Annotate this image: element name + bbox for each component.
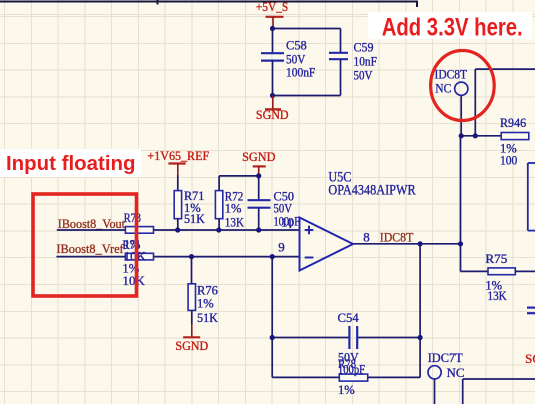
wire C54 left lead [272,337,349,339]
svg-text:OPA4348AIPWR: OPA4348AIPWR [328,182,415,198]
wire R72 top pin [218,176,220,191]
svg-text:C54: C54 [338,311,360,325]
net label IBoost8_Vout [58,216,126,231]
annotation red rectangle [33,194,137,296]
svg-text:SGND: SGND [525,351,535,366]
capacitor C50 [248,200,271,208]
wire feedback left vertical [271,257,273,378]
capacitor C50 labels [274,190,301,229]
power +5V_S label [256,0,288,14]
svg-text:10K: 10K [123,274,145,288]
resistor R76 labels [197,284,218,325]
junction feedback node [270,254,275,259]
svg-text:1%: 1% [338,383,355,397]
junction feedback top node [418,241,423,246]
power +1V65_REF label [147,148,209,163]
no-connect NC label bottom [447,365,465,380]
svg-text:R73: R73 [124,211,141,225]
wire upper-right net vertical [474,69,476,136]
svg-text:1%: 1% [225,202,242,216]
junction at +5V rail [270,26,275,31]
wire C58 bottom lead [272,61,274,96]
op-amp plus sign [305,226,314,235]
wire C50 bottom lead [258,208,260,230]
wire bottom rail [273,95,341,97]
wire SGND node to R72 [219,175,259,177]
svg-text:R946: R946 [500,116,526,130]
svg-text:SGND: SGND [242,149,275,164]
resistor R946 labels [500,116,526,168]
wire R75 left lead [461,270,489,272]
wire R75 right lead [515,270,535,272]
op-amp U5C triangle [300,218,354,271]
ground SGND bar bottom [183,336,200,338]
resistor R71 labels [184,189,205,226]
capacitor C59 [329,53,348,59]
ground SGND bar mid [253,165,266,167]
svg-text:13K: 13K [488,289,507,303]
svg-text:10: 10 [281,215,294,230]
wire upper-right net horizontal [475,68,535,70]
capacitor C58 [261,53,284,60]
svg-text:8: 8 [363,229,370,244]
wire noninverting rail [57,229,300,231]
svg-text:C59: C59 [354,41,374,55]
resistor R946 [501,133,529,140]
svg-text:NC: NC [435,81,451,96]
svg-text:IDC8T: IDC8T [380,229,414,244]
junction C54 left [270,335,275,340]
wire R76 bottom pin [191,310,193,324]
wire C59 top lead [340,29,342,53]
wire sheet top border [0,0,418,7]
wire feedback bottom [272,376,420,378]
connector pin IDC7T NC circle [428,366,441,379]
pin number 8 [363,229,370,244]
annotation text Input floating [6,153,136,175]
resistor R71 [174,191,181,219]
svg-text:IDC8T: IDC8T [435,66,468,81]
connector pin IDC7T label [428,350,463,365]
wire from NC pin down [460,95,462,135]
pin number 9 [278,239,285,254]
wire SGND stub top [272,96,274,109]
resistor R72 labels [225,190,244,230]
op-amp minus sign [305,257,314,259]
junction SGND mid node [256,173,261,178]
wire +1V65_REF stub [177,164,179,176]
wire +5V top rail [273,28,341,30]
resistor R72 [215,191,222,219]
svg-text:10nF: 10nF [354,55,377,69]
wire C58 top lead [272,29,274,54]
svg-text:IDC7T: IDC7T [428,350,463,365]
annotation white backdrop for Add 3.3V here [368,12,532,39]
wire C50 top lead [258,176,260,200]
svg-text:R78: R78 [338,357,356,371]
svg-text:+1V65_REF: +1V65_REF [147,148,209,163]
connector pin IDC8T label [435,66,468,81]
wire R71 bottom pin [177,219,179,230]
junction C54 right [418,335,423,340]
connector pin IDC8T NC circle [455,82,468,95]
svg-text:C58: C58 [286,39,307,53]
pin number 10 [281,215,294,230]
wire NC node down to output net [460,136,462,244]
junction NC node [459,133,464,138]
wire R71 top pin [177,175,179,191]
svg-text:50V: 50V [286,53,305,67]
junction at SGND rail [270,93,275,98]
svg-text:IBoost8_Vout: IBoost8_Vout [58,216,126,231]
power +1V65_REF bar [168,162,185,164]
svg-text:50V: 50V [354,69,373,83]
ground SGND label mid [242,149,275,164]
resistor R78 labels [338,357,356,397]
svg-text:SGND: SGND [175,338,208,353]
junction C50 node [256,227,261,232]
wire from IDC7T pin down [434,379,436,404]
capacitor partial right edge [527,308,535,314]
resistor R76 [188,284,195,311]
net label IBoost8_Vref [56,241,124,256]
svg-text:9: 9 [278,239,285,254]
wire inverting rail [56,256,299,258]
capacitor C59 labels [354,41,377,83]
wire SGND stub mid [258,167,260,176]
svg-text:51K: 51K [197,311,218,325]
resistor R73 labels [124,211,146,263]
wire lower right corner net [463,379,535,404]
net label IDC8T output [380,229,414,244]
ground SGND label right partial [525,351,535,366]
junction R72 node [216,227,221,232]
capacitor C58 labels [286,39,315,80]
wire output to R75 vertical [460,244,462,272]
wire C54 right lead [357,337,420,339]
svg-text:R75: R75 [485,252,507,266]
op-amp U5C part number [328,182,415,198]
capacitor C54 labels [338,311,366,377]
ground SGND label bottom [175,338,208,353]
wire to R946 [461,135,501,137]
ground SGND bar top [265,108,281,110]
annotation white backdrop for Input floating [0,149,141,177]
svg-text:51K: 51K [184,212,205,226]
svg-text:R76: R76 [197,284,218,298]
svg-text:SGND: SGND [256,107,289,122]
svg-text:+5V_S: +5V_S [256,0,288,14]
wire op-amp output [353,243,461,245]
resistor R73 [125,227,153,234]
svg-text:Input floating: Input floating [6,153,136,175]
svg-text:1%: 1% [197,297,214,311]
annotation red ellipse [431,51,495,121]
svg-text:100nF: 100nF [286,66,315,80]
annotation text Add 3.3V here [382,14,523,42]
resistor R74 [125,253,153,260]
wire C59 bottom lead [340,59,342,95]
resistor R78 [339,374,367,381]
wire R76 top pin [191,257,193,284]
junction R76 node [189,254,194,259]
wire SGND stub bottom [191,324,193,337]
svg-text:100: 100 [500,154,517,168]
capacitor C54 [349,326,357,349]
junction R71 node [175,227,180,232]
no-connect NC label top [435,81,451,96]
svg-text:IBoost8_Vref: IBoost8_Vref [56,241,124,256]
wire feedback right vertical [419,244,421,378]
junction output node [458,241,463,246]
svg-text:NC: NC [447,365,465,380]
op-amp U5C designator [328,170,351,186]
resistor R75 [488,268,515,275]
junction upper-right node [473,133,478,138]
svg-text:Add 3.3V here.: Add 3.3V here. [382,14,523,42]
connector body partial right [528,163,535,231]
svg-text:13K: 13K [225,215,244,229]
power +5V_S bar [266,16,284,18]
wire +5V_S stub [272,17,274,29]
ground SGND label top [256,107,289,122]
resistor R74 labels [123,238,145,288]
resistor R75 labels [485,252,507,303]
wire R72 bottom pin [218,219,220,230]
